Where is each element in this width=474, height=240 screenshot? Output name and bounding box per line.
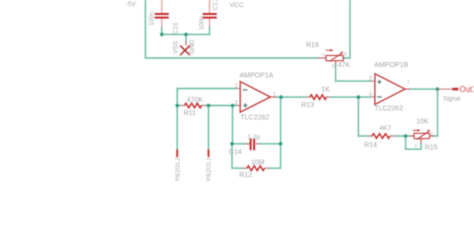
svg-text:TLC2262: TLC2262 xyxy=(241,115,270,122)
svg-text:1K: 1K xyxy=(321,87,330,94)
svg-text:Signal: Signal xyxy=(443,95,460,102)
svg-text:VCC: VCC xyxy=(230,2,244,9)
svg-text:E: E xyxy=(431,131,434,136)
svg-text:C17: C17 xyxy=(213,0,220,10)
svg-text:R11: R11 xyxy=(184,110,196,117)
svg-text:-5V: -5V xyxy=(126,1,137,8)
svg-text:1: 1 xyxy=(273,92,276,98)
svg-text:S: S xyxy=(332,63,335,68)
svg-text:47K: 47K xyxy=(338,62,351,69)
svg-text:R12: R12 xyxy=(239,172,252,179)
svg-text:R15: R15 xyxy=(425,144,438,151)
svg-text:PIEZO1.2: PIEZO1.2 xyxy=(175,157,181,181)
svg-text:AMPOP1B: AMPOP1B xyxy=(374,62,408,69)
svg-text:A: A xyxy=(409,133,412,138)
svg-text:10M: 10M xyxy=(251,159,265,166)
svg-text:6: 6 xyxy=(369,92,372,98)
svg-text:7: 7 xyxy=(407,80,410,86)
svg-text:4K7: 4K7 xyxy=(380,125,392,132)
svg-text:VSS: VSS xyxy=(172,41,179,54)
svg-text:R16: R16 xyxy=(306,42,319,49)
svg-text:1.2p: 1.2p xyxy=(247,134,260,141)
svg-text:C16: C16 xyxy=(173,22,180,34)
svg-text:100n: 100n xyxy=(199,15,206,30)
svg-text:2: 2 xyxy=(235,84,238,90)
svg-text:100n: 100n xyxy=(149,11,156,26)
svg-text:470K: 470K xyxy=(187,97,204,104)
svg-text:10K: 10K xyxy=(416,119,429,126)
svg-text:R14: R14 xyxy=(364,142,377,149)
svg-text:GND: GND xyxy=(189,39,196,54)
svg-text:AMPOP1A: AMPOP1A xyxy=(240,73,274,80)
svg-text:TLC2262: TLC2262 xyxy=(374,105,403,112)
svg-text:A: A xyxy=(322,52,325,57)
svg-text:S: S xyxy=(414,143,417,148)
svg-text:R13: R13 xyxy=(301,102,314,109)
svg-text:E: E xyxy=(344,52,347,57)
svg-text:3: 3 xyxy=(235,101,238,107)
svg-text:5: 5 xyxy=(369,76,372,82)
svg-text:PIEZO1.1: PIEZO1.1 xyxy=(207,157,213,181)
svg-text:C14: C14 xyxy=(229,149,242,156)
svg-text:Out1: Out1 xyxy=(460,85,474,94)
